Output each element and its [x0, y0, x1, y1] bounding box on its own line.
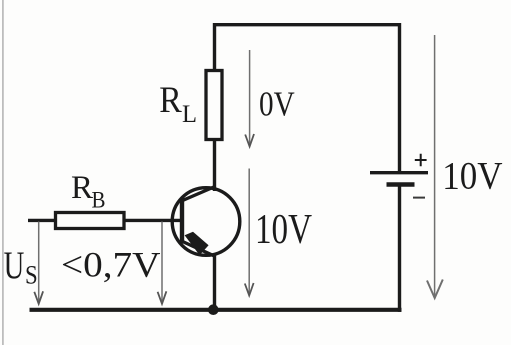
- transistor Q1: emitter diagonal: [183, 242, 216, 257]
- svg-text:0V: 0V: [259, 85, 295, 123]
- battery B1: positive plate (long): [370, 171, 428, 174]
- svg-text:S: S: [25, 260, 38, 289]
- svg-text:B: B: [92, 188, 106, 213]
- transistor Q1: circle: [172, 188, 240, 256]
- resistor R_L: [206, 71, 222, 140]
- svg-text:U: U: [4, 244, 25, 287]
- label R_B: [71, 170, 106, 213]
- label R_L: [159, 80, 197, 128]
- wire: emitter vertical down: [213, 254, 216, 311]
- svg-text:L: L: [182, 101, 197, 128]
- junction dot at emitter / bottom rail: [208, 304, 219, 315]
- arrow: 10V battery (long): [427, 35, 443, 298]
- transistor Q1: collector diagonal: [183, 187, 216, 201]
- wire: bottom rail: [30, 308, 402, 312]
- label U_S: [4, 244, 38, 290]
- svg-text:10V: 10V: [442, 155, 502, 198]
- arrow: <0,7V right: [158, 222, 167, 304]
- wire: collector vertical into transistor: [213, 139, 216, 191]
- wire: top rail: [213, 23, 401, 26]
- svg-text:R: R: [71, 170, 93, 206]
- svg-text:<0,7V: <0,7V: [61, 245, 161, 285]
- battery plus sign: [415, 154, 427, 166]
- battery B1: negative plate (short): [387, 182, 415, 186]
- scan border left edge: [2, 0, 4, 345]
- svg-text:R: R: [159, 80, 182, 121]
- arrow: 10V collector-emitter: [245, 169, 254, 296]
- arrow: U_S: [34, 222, 43, 304]
- battery minus sign: [413, 197, 425, 199]
- svg-text:10V: 10V: [255, 207, 312, 253]
- wire: right column lower (battery - to bottom rail): [398, 185, 401, 312]
- arrow: 0V (across R_L): [245, 50, 254, 147]
- wire: right column upper (to battery +): [398, 23, 401, 172]
- resistor R_B: [56, 213, 125, 229]
- transistor Q1: base bar: [180, 198, 184, 244]
- wire: base rail from left: [28, 219, 182, 222]
- transistor Q1: emitter arrow (PNP): [185, 232, 209, 255]
- wire: collector top stub above R_L: [213, 23, 216, 71]
